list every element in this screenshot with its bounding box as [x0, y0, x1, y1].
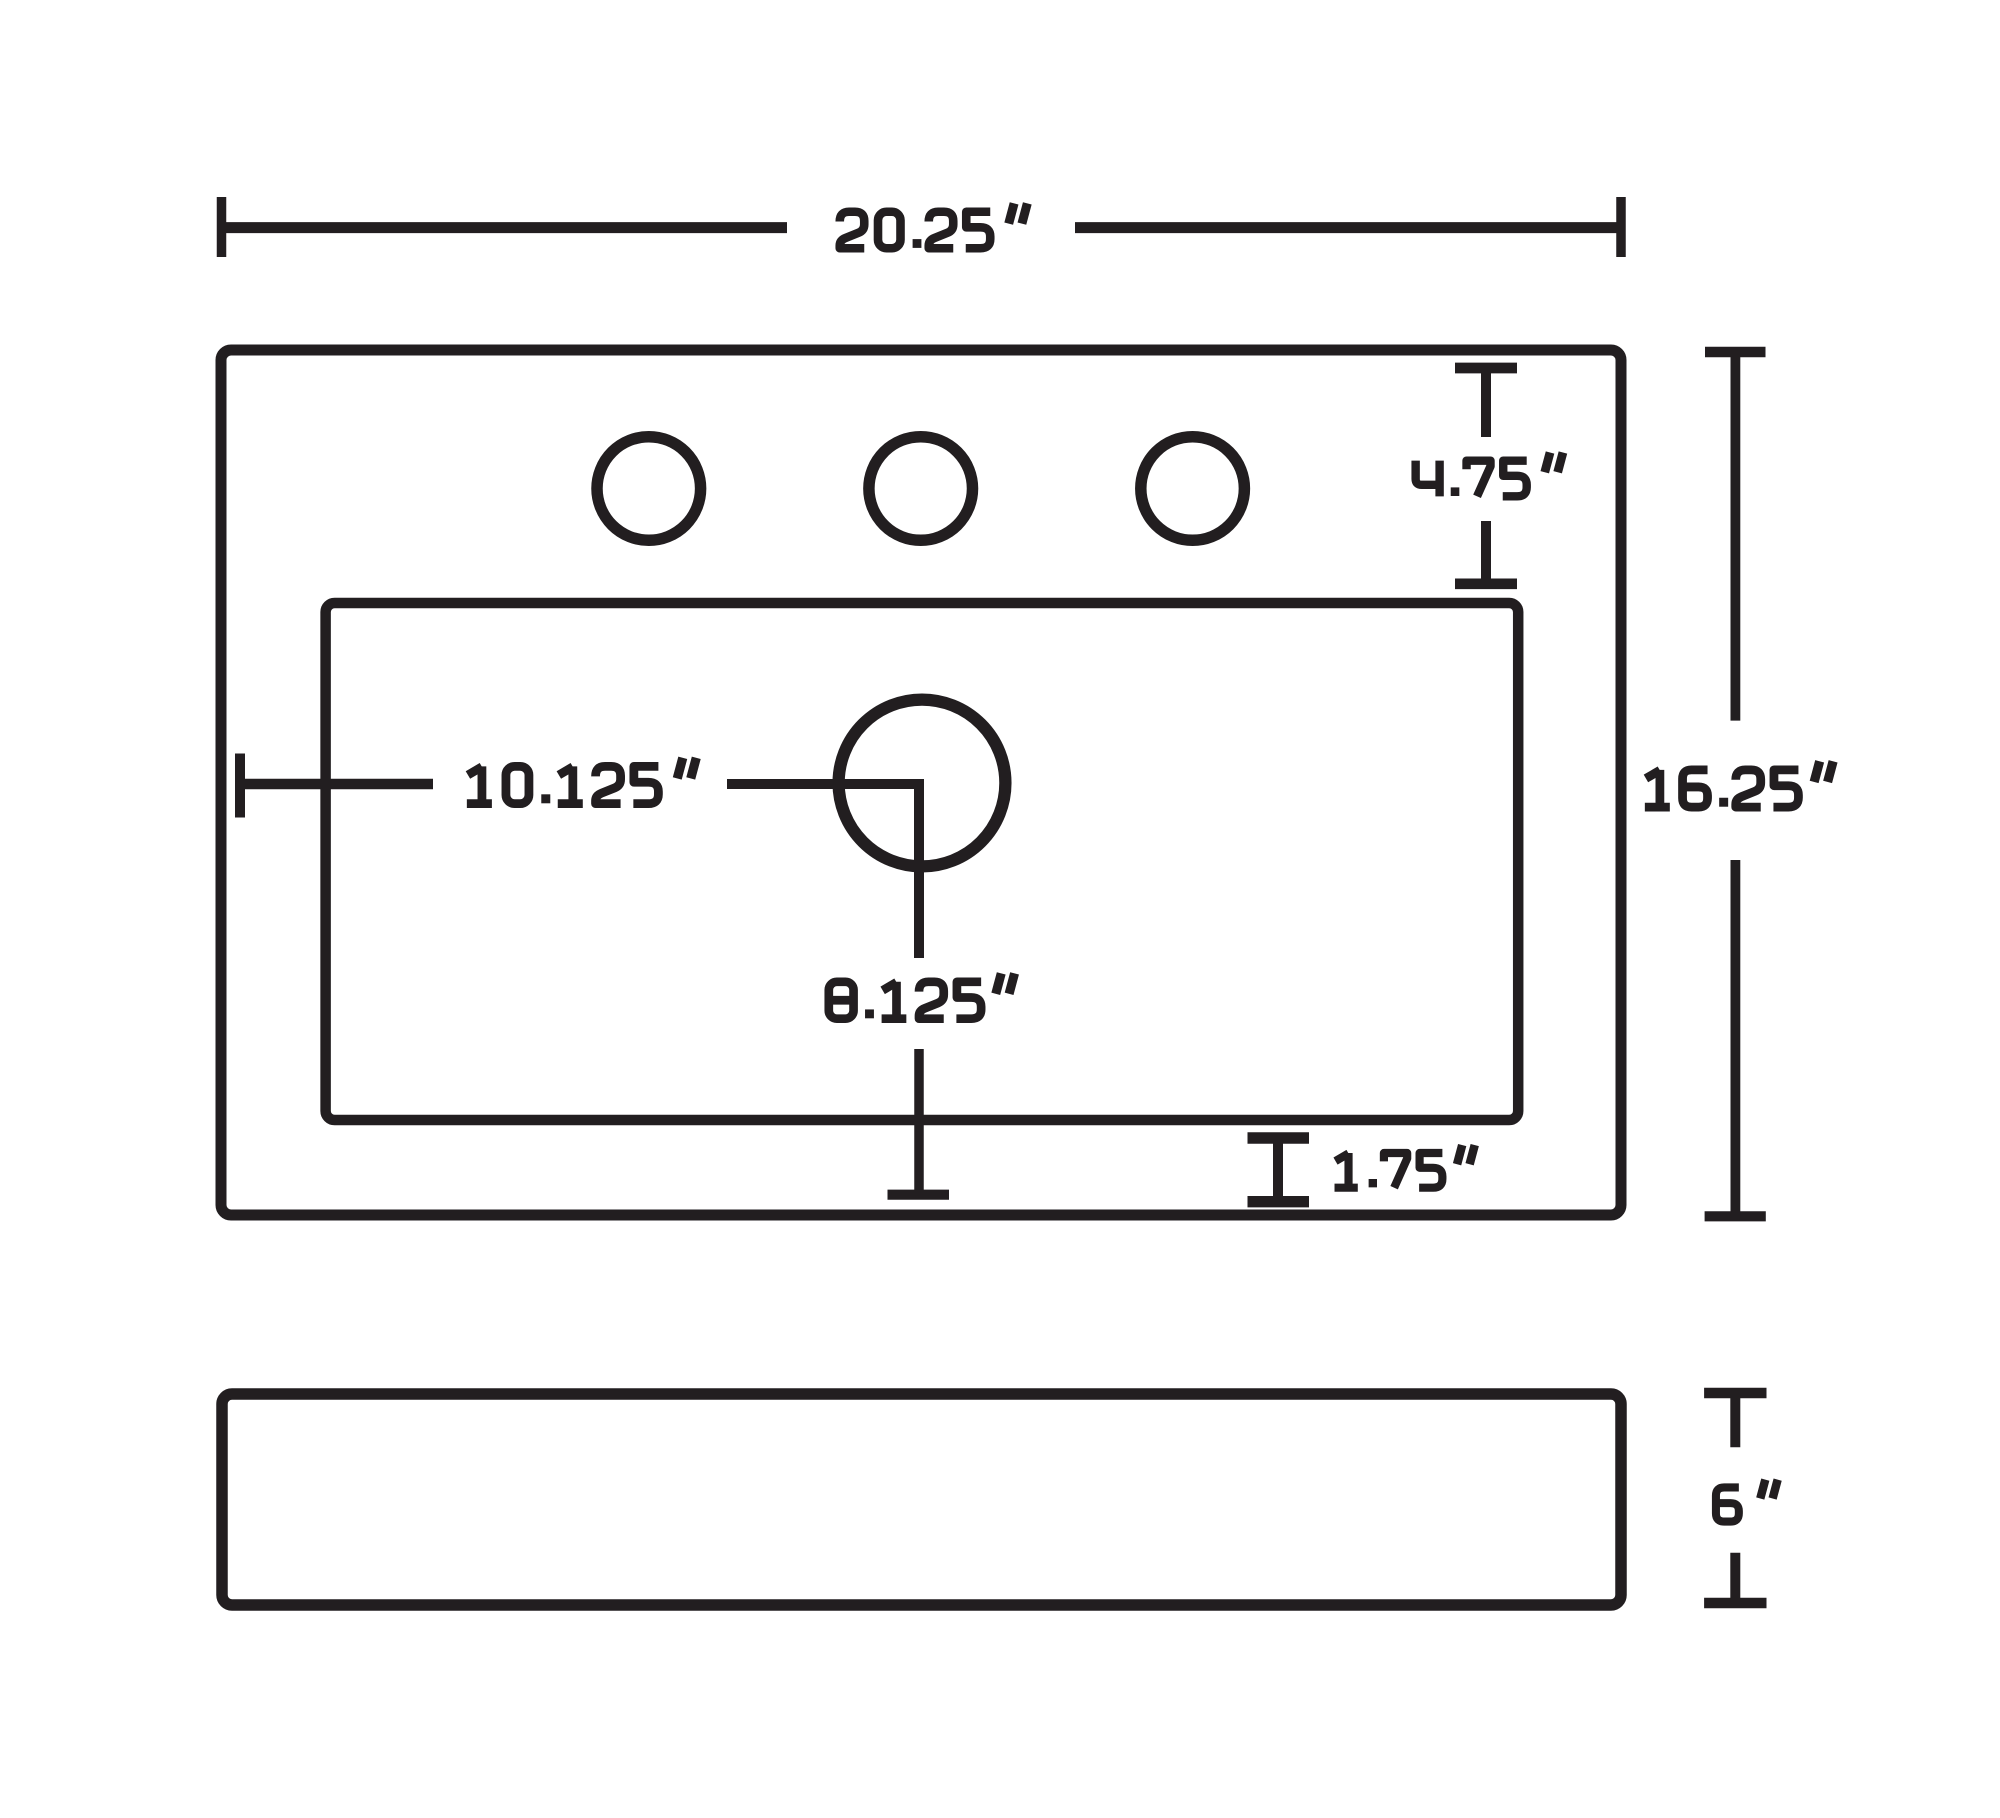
16.25 dimension: upper stem — [1731, 352, 1741, 721]
4.75 dimension: upper stem — [1481, 368, 1491, 437]
16.25 dimension: lower stem — [1731, 860, 1741, 1216]
10.125 / 8.125 dimension: corner line to drain center — [727, 784, 919, 958]
label 16.25 inch — [1645, 761, 1833, 807]
label 20.25 inch — [840, 203, 1028, 248]
label 1.75 inch — [1335, 1145, 1475, 1188]
top width dimension: left line segment — [222, 222, 788, 233]
top width dimension: right line segment — [1075, 222, 1621, 233]
16.25 dimension: bottom T bar — [1705, 1211, 1766, 1221]
10.125 dimension: left line segment — [240, 779, 433, 790]
label 6 inch — [1716, 1480, 1778, 1522]
basin inner rectangle — [326, 603, 1519, 1120]
sink outer rectangle (top view) — [221, 350, 1621, 1215]
top width dimension: left tick — [217, 197, 227, 257]
4.75 dimension: top T bar — [1455, 363, 1517, 374]
1.75 dimension: bottom T bar — [1248, 1196, 1310, 1207]
1.75 dimension: top T bar — [1248, 1132, 1310, 1143]
faucet hole circle left — [597, 437, 701, 541]
1.75 dimension: stem — [1273, 1138, 1283, 1202]
4.75 dimension: bottom T bar — [1455, 578, 1517, 589]
faucet hole circle right — [1141, 437, 1245, 541]
6 dimension: upper stem — [1730, 1393, 1740, 1447]
sink side view rectangle — [222, 1394, 1621, 1605]
6 dimension: lower stem — [1730, 1553, 1740, 1598]
label 4.75 inch — [1416, 452, 1563, 496]
8.125 dimension: bottom T bar — [888, 1190, 950, 1200]
8.125 dimension: lower stem — [914, 1049, 924, 1196]
6 dimension: bottom T bar — [1704, 1598, 1766, 1609]
4.75 dimension: lower stem — [1481, 521, 1491, 584]
top width dimension: right tick — [1616, 197, 1626, 257]
faucet hole circle middle — [869, 437, 973, 541]
10.125 dimension: left tick — [235, 754, 245, 818]
16.25 dimension: top T bar — [1705, 347, 1766, 358]
drain circle — [839, 700, 1006, 867]
label 8.125 inch — [829, 973, 1015, 1018]
6 dimension: top T bar — [1704, 1388, 1766, 1399]
label 10.125 inch — [467, 758, 696, 804]
